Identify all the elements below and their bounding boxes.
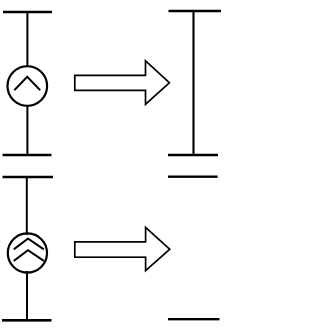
arrow: transformation arrow (current source to open circuit) [75, 227, 170, 270]
wire: voltage source bottom lead [26, 105, 28, 155]
node: top terminal bar of current source branch [3, 176, 54, 179]
node: bottom terminal bar of short-circuit branch [168, 154, 218, 156]
wire: current source top lead [26, 177, 28, 235]
current source I (circle) [8, 233, 47, 272]
current source I lower chevron symbol [15, 250, 44, 260]
wire: short circuit (voltage source replaced by wire) [192, 11, 194, 155]
current source I upper chevron symbol [15, 239, 44, 249]
voltage source V (circle) [8, 66, 48, 106]
node: bottom terminal bar of open-circuit branch [168, 318, 220, 320]
arrow: transformation arrow (voltage source to short circuit) [75, 61, 170, 105]
node: bottom terminal bar of current source branch [2, 319, 52, 322]
voltage source V chevron symbol [15, 77, 40, 90]
node: top terminal bar of open-circuit branch [168, 175, 218, 177]
node: top terminal bar of voltage source branch [3, 11, 52, 14]
wire: voltage source top lead [26, 12, 28, 67]
node: top terminal bar of short-circuit branch [169, 10, 222, 12]
wire: current source bottom lead [26, 271, 28, 320]
node: bottom terminal bar of voltage source branch [3, 154, 52, 157]
